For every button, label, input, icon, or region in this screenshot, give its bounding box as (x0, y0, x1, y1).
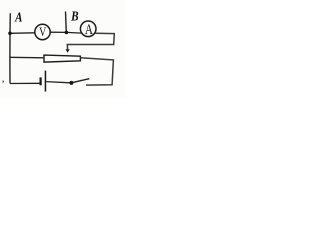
svg-text:V: V (39, 26, 46, 39)
svg-text:A: A (14, 9, 22, 25)
svg-text:,: , (2, 73, 5, 85)
svg-text:B: B (70, 8, 78, 23)
svg-text:A: A (85, 22, 94, 38)
